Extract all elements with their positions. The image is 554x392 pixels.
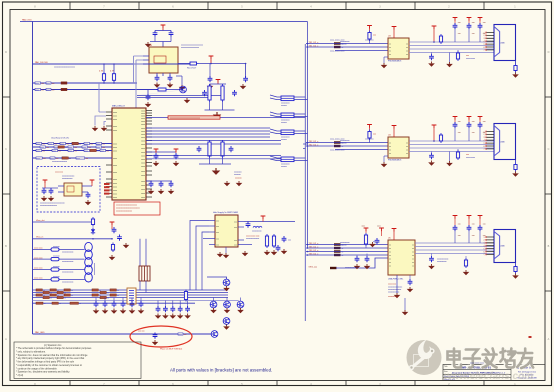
svg-text:xx: xx xyxy=(406,50,408,52)
net label xyxy=(50,294,59,297)
watermark logo flame xyxy=(418,340,433,360)
svg-text:xx: xx xyxy=(389,258,391,260)
net label xyxy=(84,149,93,152)
svg-text:xxxx: xxxx xyxy=(60,143,64,145)
net label xyxy=(43,291,52,294)
svg-text:xxxx: xxxx xyxy=(100,150,104,152)
svg-text:xxx: xxx xyxy=(43,158,46,160)
wire xyxy=(136,59,143,61)
ground xyxy=(242,251,249,256)
wire xyxy=(103,64,105,72)
wire VBUS right drop xyxy=(307,22,309,248)
svg-text:xxxxxxxxxxx: xxxxxxxxxxx xyxy=(62,178,72,180)
choke L1 xyxy=(281,96,294,101)
wire to vbus xyxy=(294,114,308,117)
wire to connector xyxy=(415,253,495,255)
ferrite bead FB1 xyxy=(61,82,67,84)
wire VBUS top rail xyxy=(20,21,308,23)
wire xyxy=(244,244,252,246)
svg-text:xxx: xxx xyxy=(234,244,237,246)
svg-text:xxxx: xxxx xyxy=(141,189,145,191)
wire xyxy=(139,281,141,290)
svg-text:xxxx: xxxx xyxy=(113,186,117,188)
wire data xyxy=(306,43,388,45)
svg-text:PAD_5V0: PAD_5V0 xyxy=(22,18,32,21)
svg-text:xx: xx xyxy=(64,292,66,294)
IC U4 body xyxy=(388,137,409,158)
svg-text:xxxx: xxxx xyxy=(96,143,100,145)
wire bus 6 xyxy=(33,302,196,304)
svg-text:xxx: xxx xyxy=(483,22,486,24)
pin stub U8 left xyxy=(143,56,149,64)
wire xyxy=(515,160,517,163)
wire channel 1 xyxy=(33,249,85,251)
capacitor C4 xyxy=(168,75,173,81)
capacitor CA6 xyxy=(139,301,144,307)
svg-text:xxx: xxx xyxy=(472,224,475,226)
highlight ellipse xyxy=(130,326,192,347)
pin stub U7 right xyxy=(238,226,244,228)
transistor Q1 xyxy=(180,86,187,93)
power flag xyxy=(379,228,384,231)
svg-text:xxxx xxxx: xxxx xxxx xyxy=(34,278,43,280)
svg-text:xxx: xxx xyxy=(106,150,109,152)
net label xyxy=(82,146,91,149)
capacitor CA5 xyxy=(130,301,135,307)
inductor L5 xyxy=(253,226,262,227)
svg-text:xxxx: xxxx xyxy=(96,147,100,149)
power flag xyxy=(43,180,48,183)
svg-text:xxxx: xxxx xyxy=(76,158,80,160)
svg-text:xx: xx xyxy=(107,297,109,299)
wire xyxy=(145,281,147,293)
power flag xyxy=(478,117,483,120)
capacitor C24 xyxy=(276,245,281,251)
svg-text:xxxx: xxxx xyxy=(141,162,145,164)
wire tap xyxy=(303,148,305,150)
svg-text:Place on BOTTOM bot: Place on BOTTOM bot xyxy=(160,347,182,350)
svg-text:xxxxxxx: xxxxxxx xyxy=(340,44,347,46)
svg-text:xx: xx xyxy=(65,147,67,149)
power flag xyxy=(453,216,458,219)
svg-text:xxxx: xxxx xyxy=(46,83,50,85)
wire xyxy=(479,29,481,42)
svg-text:xxx: xxx xyxy=(58,150,61,152)
svg-text:xxxxxxx: xxxxxxx xyxy=(340,245,347,247)
svg-text:xxxx: xxxx xyxy=(113,179,117,181)
svg-text:xxxxxxxxxxxxxxxxx: xxxxxxxxxxxxxxxxx xyxy=(116,211,132,213)
svg-text:5: 5 xyxy=(484,44,485,46)
wire xyxy=(454,231,456,243)
pin stubs U1 left xyxy=(106,112,112,197)
power flag xyxy=(392,27,397,30)
wire xyxy=(209,102,211,110)
ground xyxy=(173,161,180,166)
wire data xyxy=(335,149,388,151)
svg-text:xxxx: xxxx xyxy=(54,147,58,149)
svg-text:xx: xx xyxy=(412,248,414,250)
wire xyxy=(154,37,156,42)
svg-text:xxxx: xxxx xyxy=(141,181,145,183)
capacitor CB1 xyxy=(156,306,161,312)
svg-text:Hub Supply 5v SWITCHER: Hub Supply 5v SWITCHER xyxy=(213,212,239,214)
svg-text:xx: xx xyxy=(406,153,408,155)
transistor Q5 xyxy=(237,301,244,308)
connector J1 USB body xyxy=(494,25,516,61)
net label xyxy=(54,146,63,149)
net label xyxy=(72,142,81,145)
power flag xyxy=(467,18,472,21)
capacitor C15 xyxy=(169,181,174,187)
capacitor xyxy=(478,122,483,128)
svg-text:xxx: xxx xyxy=(458,22,461,24)
capacitor xyxy=(478,23,483,29)
net label xyxy=(90,149,99,152)
svg-text:D: D xyxy=(5,51,7,54)
svg-text:xxxx xxxxx xxxx: xxxx xxxxx xxxx xyxy=(470,363,484,365)
wire to connector xyxy=(409,144,495,146)
svg-text:xxx: xxx xyxy=(466,55,469,57)
svg-text:xx: xx xyxy=(71,295,73,297)
capacitor C10 xyxy=(229,146,234,152)
wire to connector xyxy=(415,246,495,248)
svg-text:xxxx_xxxxx_xxxx: xxxx_xxxxx_xxxx xyxy=(330,150,344,152)
wire control xyxy=(33,157,112,159)
resistor R13 xyxy=(265,234,268,248)
svg-text:xxx: xxx xyxy=(216,232,219,234)
capacitor C3 xyxy=(155,75,160,81)
svg-text:xx: xx xyxy=(389,153,391,155)
wire data bus xyxy=(33,146,112,148)
wire xyxy=(209,64,211,79)
svg-text:xxxx: xxxx xyxy=(36,143,40,145)
ground xyxy=(463,270,470,275)
ground xyxy=(109,255,116,260)
wire xyxy=(404,298,406,310)
svg-text:xxxxxxxxxxxx: xxxxxxxxxxxx xyxy=(62,272,73,274)
svg-text:xx: xx xyxy=(389,47,391,49)
net label M3 en xyxy=(309,266,337,269)
pin stub U8 bottom xyxy=(157,73,170,76)
resistor R9 xyxy=(221,140,224,158)
svg-text:xx: xx xyxy=(406,149,408,151)
wire xyxy=(433,29,435,42)
resistor xyxy=(456,51,459,61)
wire to vbus xyxy=(294,97,308,100)
diode D1 xyxy=(91,228,95,235)
svg-text:C: C xyxy=(548,148,550,151)
svg-text:xx: xx xyxy=(50,297,52,299)
wire xyxy=(134,63,144,65)
svg-text:3: 3 xyxy=(484,137,485,139)
svg-text:PAD_5V0 5V0: PAD_5V0 5V0 xyxy=(35,61,49,64)
svg-text:xxx: xxx xyxy=(66,143,69,145)
capacitor C29 xyxy=(408,279,413,285)
svg-text:xx: xx xyxy=(389,50,391,52)
wire xyxy=(479,128,481,141)
wire bus 5 xyxy=(33,300,239,302)
capacitor C23 xyxy=(282,236,287,242)
svg-text:xxxx: xxxx xyxy=(141,175,145,177)
svg-text:1: 1 xyxy=(484,237,485,239)
svg-text:xxxxxxxxxxxxxxxxxx: xxxxxxxxxxxxxxxxxx xyxy=(40,205,57,207)
pin stub xyxy=(58,186,92,192)
ground xyxy=(170,314,177,319)
svg-text:xxxx: xxxx xyxy=(141,159,145,161)
ferrite bead FB4 xyxy=(51,257,59,260)
svg-text:2: 2 xyxy=(484,134,485,136)
net label xyxy=(72,142,81,145)
wire U7 feed xyxy=(190,221,209,291)
svg-text:xx: xx xyxy=(406,43,408,45)
capacitor xyxy=(478,225,483,231)
connector J3 xyxy=(127,288,136,304)
ground xyxy=(123,243,130,248)
svg-text:6: 6 xyxy=(484,146,485,148)
svg-text:xxxx: xxxx xyxy=(113,193,117,195)
svg-text:xxxx xxxx: xxxx xxxx xyxy=(34,248,43,250)
resistor xyxy=(514,265,517,274)
connector J3 pins xyxy=(487,237,495,254)
wire xyxy=(147,90,149,97)
svg-text:xxx: xxx xyxy=(234,240,237,242)
wire xyxy=(134,55,144,57)
svg-text:xxx: xxx xyxy=(458,33,461,35)
power flag xyxy=(110,222,115,225)
net label M3 xyxy=(309,253,344,256)
net label xyxy=(36,302,46,305)
ground xyxy=(271,250,278,255)
wire enable xyxy=(336,258,388,268)
power flag xyxy=(174,149,179,152)
svg-text:4: 4 xyxy=(484,246,485,248)
watermark logo box xyxy=(414,355,429,367)
svg-text:xxx: xxx xyxy=(52,89,55,91)
pin stub U7 right xyxy=(238,239,244,241)
ground xyxy=(512,172,519,177)
svg-text:xxx: xxx xyxy=(234,221,237,223)
svg-text:xxxx: xxxx xyxy=(141,144,145,146)
wire xyxy=(139,239,141,266)
net label xyxy=(96,146,105,149)
svg-text:xxxx: xxxx xyxy=(35,83,39,85)
connector J1 pin column xyxy=(494,27,500,58)
svg-text:xxx: xxx xyxy=(74,150,77,152)
ground xyxy=(224,181,231,186)
svg-text:xxxxxxxxxxxx: xxxxxxxxxxxx xyxy=(94,263,96,275)
resistor R11 xyxy=(111,243,114,253)
net label xyxy=(62,157,70,160)
capacitor xyxy=(467,23,472,29)
ground xyxy=(381,63,388,68)
net label M3 xyxy=(309,246,344,249)
wire xyxy=(454,29,456,42)
svg-text:xx: xx xyxy=(50,292,52,294)
net label xyxy=(36,157,46,160)
wire xyxy=(145,239,147,266)
power flag xyxy=(90,180,95,183)
svg-text:USB: USB xyxy=(500,246,505,248)
svg-text:* /d).d): * /d).d) xyxy=(16,374,23,377)
capacitor C18 xyxy=(86,192,91,198)
svg-text:xx: xx xyxy=(79,143,81,145)
svg-text:xxxx: xxxx xyxy=(141,124,145,126)
capacitor C5 xyxy=(243,76,248,82)
regulator U8 body xyxy=(149,47,178,73)
pin stub U7 left xyxy=(209,244,215,246)
svg-text:xxxxxxx: xxxxxxx xyxy=(53,266,60,268)
svg-text:xxxxxx: xxxxxx xyxy=(281,139,287,141)
wire bus 4 xyxy=(33,297,229,299)
svg-text:All parts with values in [brac: All parts with values in [brackets] are … xyxy=(170,367,272,372)
choke L4 xyxy=(281,157,294,162)
capacitor C5a xyxy=(208,76,213,82)
svg-text:xxxxxxx: xxxxxxx xyxy=(53,256,60,258)
svg-text:xxxx: xxxx xyxy=(84,150,88,152)
ground xyxy=(428,161,435,166)
wire xyxy=(146,155,281,157)
resistor xyxy=(439,133,442,143)
wire xyxy=(383,156,385,162)
capacitor xyxy=(429,54,434,60)
annotation box xyxy=(114,202,160,215)
power flag P5V0 xyxy=(161,25,166,28)
capacitor C6 xyxy=(146,94,151,100)
wire xyxy=(210,83,227,85)
svg-text:xxxxxxx: xxxxxxx xyxy=(340,143,347,145)
wire xyxy=(199,63,246,65)
svg-text:xxx: xxx xyxy=(88,147,91,149)
svg-text:xxxx: xxxx xyxy=(141,148,145,150)
wire xyxy=(222,102,224,110)
svg-text:xxx: xxx xyxy=(102,143,105,145)
ground xyxy=(428,264,435,269)
svg-text:xxxxxxxxxxxxxxxxxx: xxxxxxxxxxxxxxxxxx xyxy=(181,47,199,49)
ground xyxy=(145,42,152,47)
ground xyxy=(236,181,243,186)
resistor xyxy=(464,258,467,268)
capacitor xyxy=(467,122,472,128)
svg-text:xxx: xxx xyxy=(472,121,475,123)
wire jog xyxy=(270,129,281,134)
ground xyxy=(207,84,214,89)
svg-text:xx: xx xyxy=(71,290,73,292)
capacitor C21 xyxy=(153,333,158,339)
capacitor CA3 xyxy=(112,301,117,307)
wire xyxy=(162,42,164,48)
ground xyxy=(446,161,453,166)
ground xyxy=(264,250,271,255)
resistor R5 xyxy=(156,88,168,91)
wire to MCU xyxy=(133,56,135,83)
wire channel 4 xyxy=(33,278,85,280)
ground xyxy=(111,309,118,314)
ground xyxy=(120,309,127,314)
wire xyxy=(146,127,270,129)
wire to connector xyxy=(409,147,495,149)
svg-text:xx: xx xyxy=(69,158,71,160)
svg-text:www.elecfans.com: www.elecfans.com xyxy=(444,371,533,382)
power flag xyxy=(453,117,458,120)
svg-text:xxx: xxx xyxy=(41,83,44,85)
wire xyxy=(146,158,281,160)
pin stub U7 right xyxy=(238,221,244,223)
net label xyxy=(92,294,101,297)
wire DP bundle xyxy=(146,117,305,119)
svg-text:xxx: xxx xyxy=(74,147,77,149)
net label xyxy=(76,157,88,160)
capacitor C26 xyxy=(355,256,360,262)
wire data xyxy=(306,145,388,147)
svg-text:xxxx: xxxx xyxy=(50,158,54,160)
svg-text:xx: xx xyxy=(389,146,391,148)
power flag xyxy=(154,149,159,152)
svg-text:xxxx: xxxx xyxy=(84,143,88,145)
svg-text:xxx: xxx xyxy=(483,121,486,123)
power flag xyxy=(216,80,221,83)
net label xyxy=(50,157,58,160)
capacitor CB5 xyxy=(185,306,190,312)
net label xyxy=(70,302,81,305)
svg-text:R0_OhmT: R0_OhmT xyxy=(187,68,197,70)
wire xyxy=(146,140,281,142)
svg-text:xxx: xxx xyxy=(216,238,219,240)
wire xyxy=(113,80,115,83)
connector J3 USB body xyxy=(494,230,516,263)
svg-text:6: 6 xyxy=(484,251,485,253)
ground xyxy=(154,83,161,88)
svg-text:PAD_GND: PAD_GND xyxy=(35,331,45,334)
capacitor C14 xyxy=(159,181,164,187)
power flag xyxy=(478,216,483,219)
notes box xyxy=(14,342,141,379)
svg-text:xx: xx xyxy=(389,142,391,144)
wire data xyxy=(335,50,388,52)
svg-text:xx: xx xyxy=(412,265,414,267)
net label xyxy=(84,142,93,145)
capacitor C16 xyxy=(42,188,47,194)
svg-text:xxxx xxxxx: xxxx xxxxx xyxy=(466,58,475,60)
svg-text:xxxxxxxxxxxxxxxxxxxxxx: xxxxxxxxxxxxxxxxxxxxxx xyxy=(54,67,75,69)
capacitor C2 xyxy=(169,31,174,37)
wire data bus xyxy=(33,143,112,145)
net label xyxy=(58,146,67,149)
svg-text:5: 5 xyxy=(484,248,485,250)
svg-text:xxxxxxxxxxxxxxxx: xxxxxxxxxxxxxxxx xyxy=(52,161,67,163)
connector J2 USB body xyxy=(494,124,516,160)
ground xyxy=(93,309,100,314)
svg-text:xxxx xxxx: xxxx xxxx xyxy=(34,257,43,259)
svg-text:xxxx: xxxx xyxy=(35,89,39,91)
net label xyxy=(96,142,105,145)
svg-text:6: 6 xyxy=(484,47,485,49)
resistor R15 xyxy=(364,233,367,246)
ground xyxy=(167,83,174,88)
wire xyxy=(369,39,371,44)
svg-text:xxx: xxx xyxy=(90,143,93,145)
title block divider xyxy=(443,365,511,381)
svg-text:xx: xx xyxy=(389,248,391,250)
wire left vertical rail xyxy=(32,22,34,335)
wire jog xyxy=(270,95,281,100)
wire xyxy=(433,128,435,141)
capacitor CB3 xyxy=(170,306,175,312)
svg-text:xxxx: xxxx xyxy=(113,119,117,121)
wire tap xyxy=(303,143,308,145)
wire xyxy=(176,75,182,77)
wire to connector xyxy=(409,140,495,142)
wire to MCU xyxy=(98,83,100,112)
